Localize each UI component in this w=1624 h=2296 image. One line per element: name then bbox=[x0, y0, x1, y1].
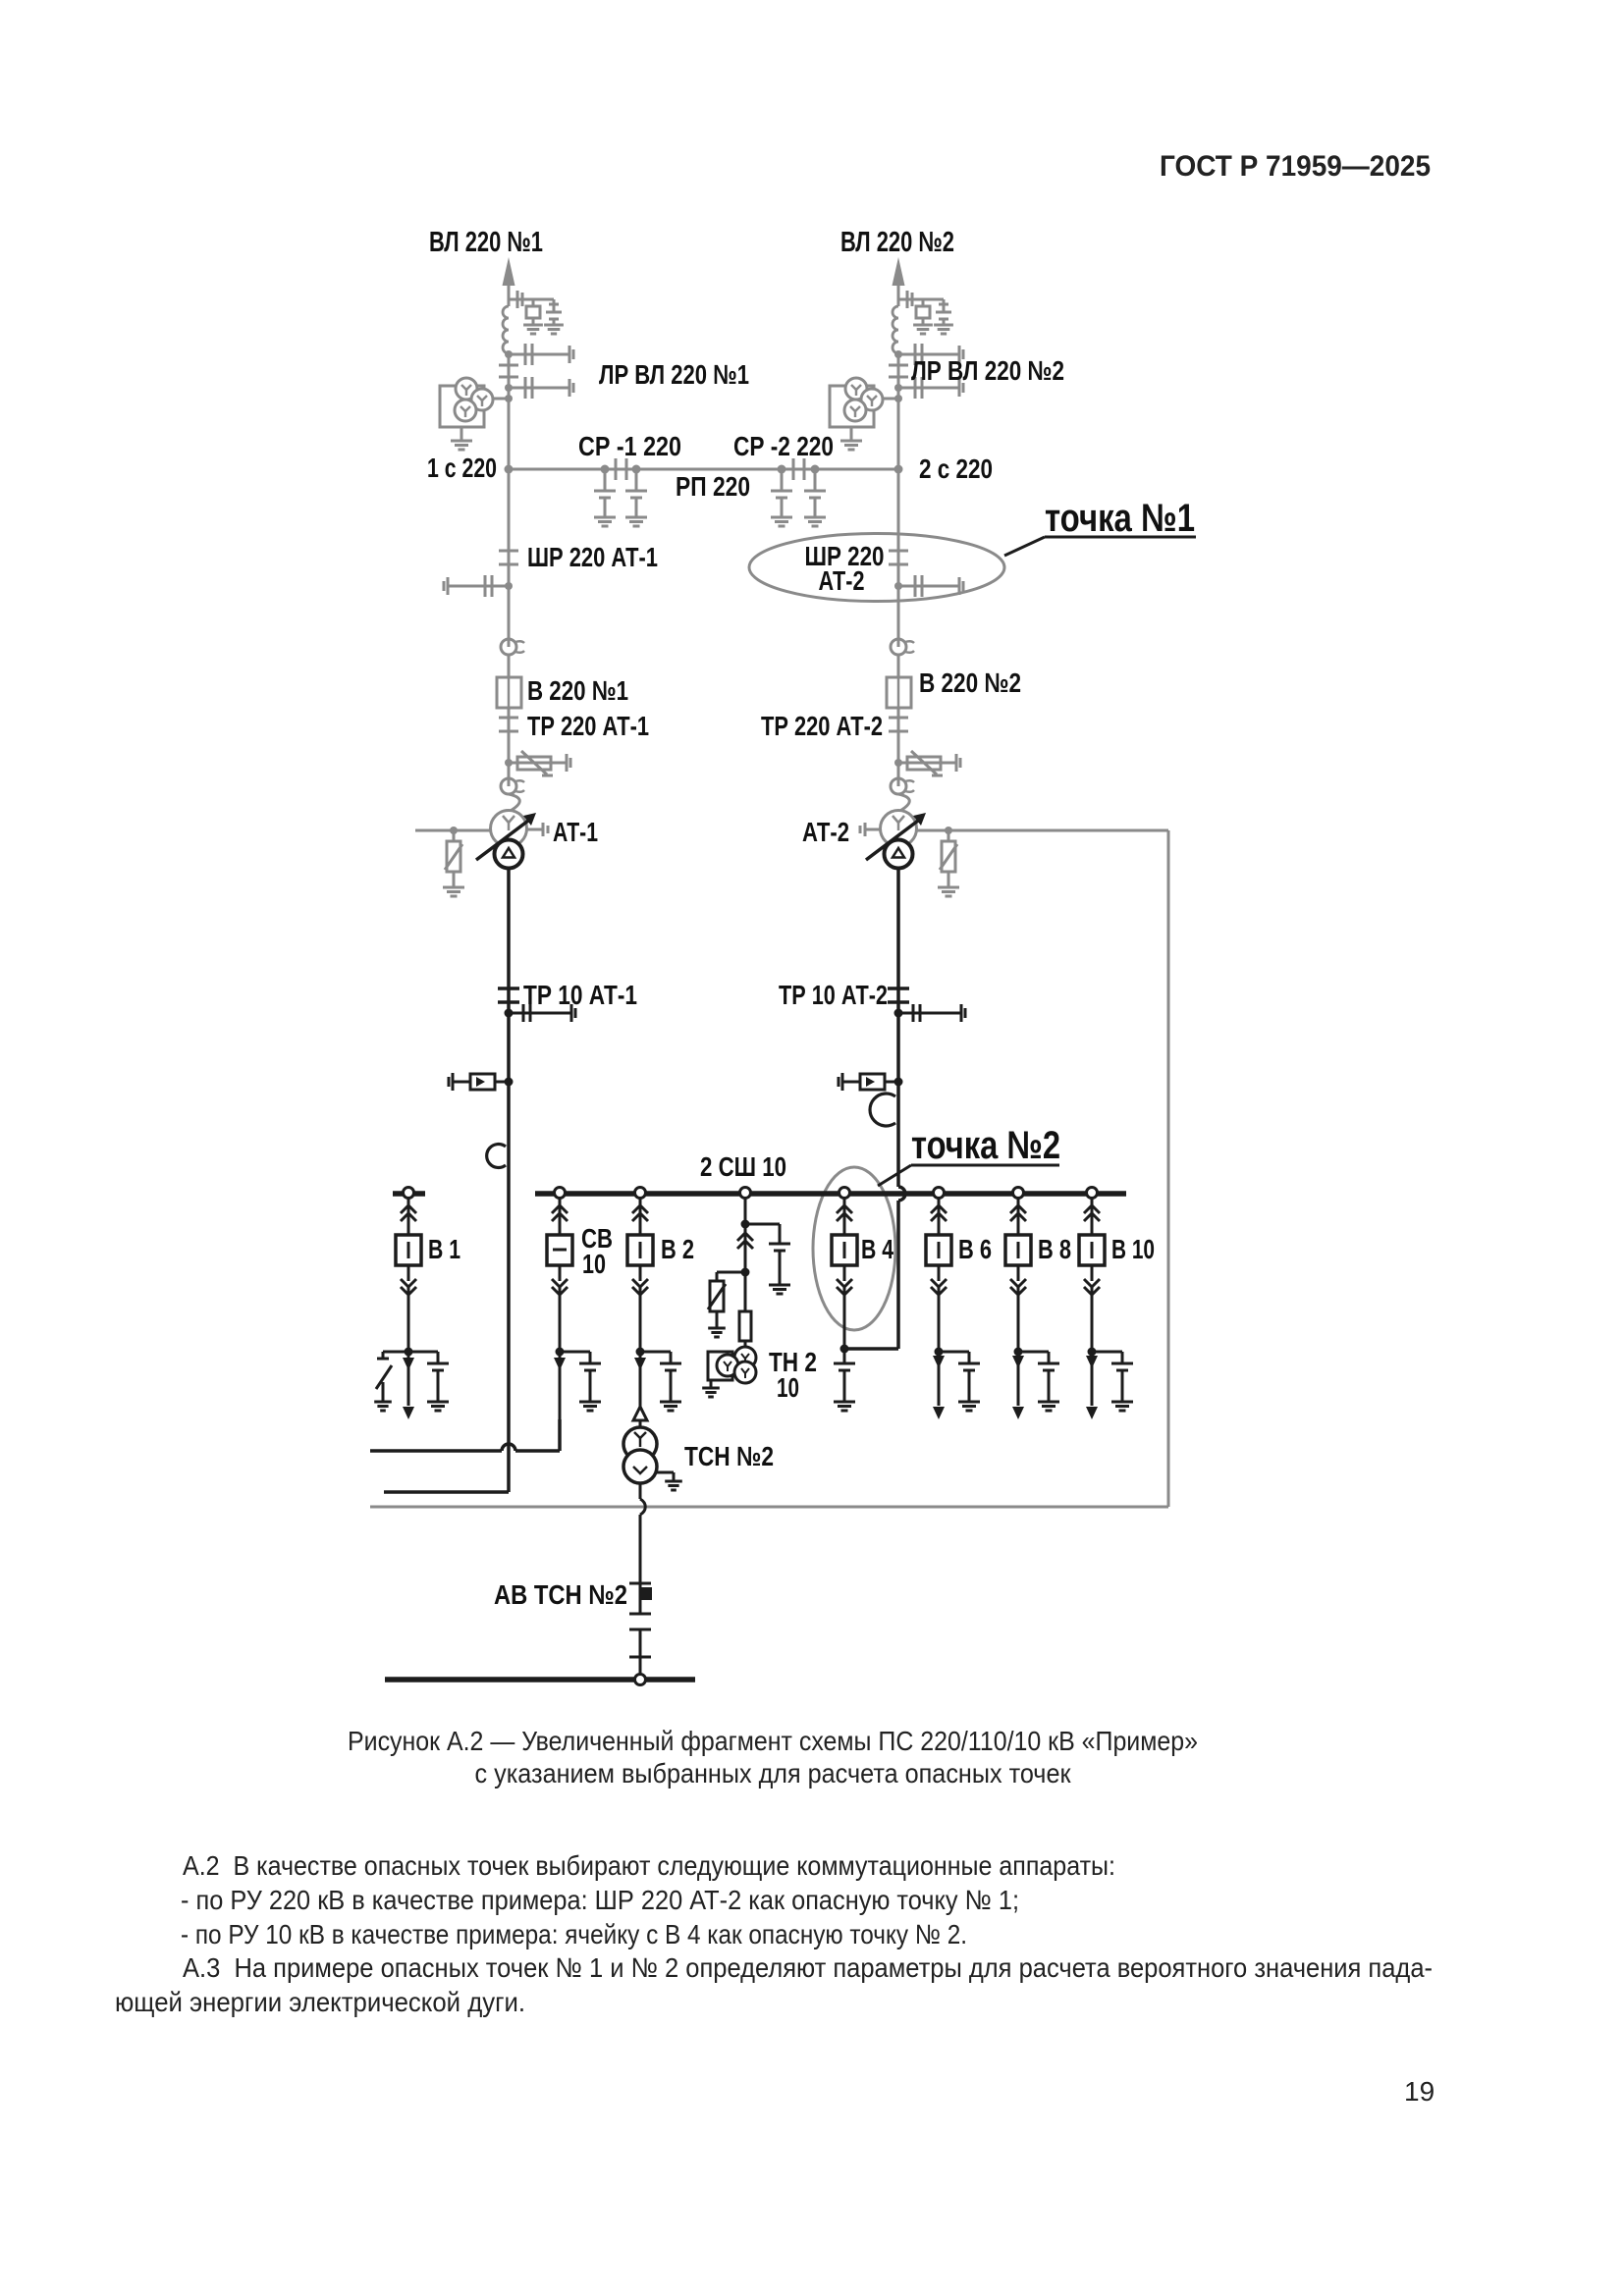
svg-text:В 8: В 8 bbox=[1038, 1234, 1071, 1264]
svg-text:В 2: В 2 bbox=[661, 1234, 694, 1264]
svg-text:В 220 №1: В 220 №1 bbox=[527, 675, 628, 706]
svg-text:АТ-2: АТ-2 bbox=[802, 817, 849, 847]
svg-text:ТР 10 АТ-1: ТР 10 АТ-1 bbox=[523, 980, 637, 1010]
svg-text:ГОСТ Р 71959—2025: ГОСТ Р 71959—2025 bbox=[1160, 150, 1431, 183]
svg-text:ТР 10 АТ-2: ТР 10 АТ-2 bbox=[779, 980, 888, 1010]
svg-text:В 1: В 1 bbox=[428, 1234, 460, 1264]
svg-text:А.2 В качестве опасных точек: А.2 В качестве опасных точек выбирают сл… bbox=[183, 1850, 1115, 1881]
svg-text:В 4: В 4 bbox=[861, 1234, 893, 1264]
svg-text:ВЛ 220 №2: ВЛ 220 №2 bbox=[840, 227, 954, 258]
svg-text:10: 10 bbox=[777, 1372, 799, 1403]
svg-text:- по РУ 220 кВ в качестве прим: - по РУ 220 кВ в качестве примера: ШР 22… bbox=[181, 1885, 1019, 1915]
svg-text:ЛР ВЛ 220 №2: ЛР ВЛ 220 №2 bbox=[911, 355, 1064, 386]
svg-text:В 10: В 10 bbox=[1111, 1234, 1155, 1264]
svg-text:19: 19 bbox=[1404, 2076, 1435, 2107]
svg-text:2 с 220: 2 с 220 bbox=[919, 454, 993, 484]
svg-text:точка №2: точка №2 bbox=[911, 1124, 1060, 1167]
svg-text:2 СШ 10: 2 СШ 10 bbox=[700, 1151, 786, 1182]
svg-text:ТСН №2: ТСН №2 bbox=[684, 1441, 774, 1471]
svg-text:АТ-1: АТ-1 bbox=[553, 817, 598, 847]
svg-text:А.3 На примере опасных точек: А.3 На примере опасных точек № 1 и № 2 о… bbox=[183, 1952, 1433, 1983]
svg-text:ШР 220 АТ-1: ШР 220 АТ-1 bbox=[527, 542, 658, 572]
svg-text:РП 220: РП 220 bbox=[676, 471, 750, 502]
svg-text:- по РУ 10 кВ в качестве приме: - по РУ 10 кВ в качестве примера: ячейку… bbox=[181, 1919, 967, 1949]
svg-text:СР -2 220: СР -2 220 bbox=[733, 431, 834, 461]
svg-text:Рисунок А.2 — Увеличенный фраг: Рисунок А.2 — Увеличенный фрагмент схемы… bbox=[348, 1726, 1198, 1756]
svg-text:ТР 220 АТ-1: ТР 220 АТ-1 bbox=[527, 711, 649, 741]
svg-text:ВЛ 220 №1: ВЛ 220 №1 bbox=[429, 227, 543, 258]
svg-text:1 с 220: 1 с 220 bbox=[427, 453, 497, 483]
svg-text:В 220 №2: В 220 №2 bbox=[919, 667, 1021, 698]
svg-text:АТ-2: АТ-2 bbox=[819, 565, 865, 596]
svg-text:ющей энергии электрической дуг: ющей энергии электрической дуги. bbox=[115, 1987, 525, 2017]
svg-text:точка №1: точка №1 bbox=[1045, 497, 1195, 540]
svg-text:СР -1 220: СР -1 220 bbox=[578, 431, 681, 461]
svg-text:В 6: В 6 bbox=[958, 1234, 992, 1264]
svg-text:ТР 220 АТ-2: ТР 220 АТ-2 bbox=[761, 711, 883, 741]
svg-text:ЛР ВЛ 220 №1: ЛР ВЛ 220 №1 bbox=[599, 359, 749, 390]
svg-text:АВ ТСН №2: АВ ТСН №2 bbox=[494, 1579, 627, 1610]
svg-text:10: 10 bbox=[582, 1249, 606, 1279]
svg-text:с указанием выбранных для расч: с указанием выбранных для расчета опасны… bbox=[475, 1758, 1072, 1789]
